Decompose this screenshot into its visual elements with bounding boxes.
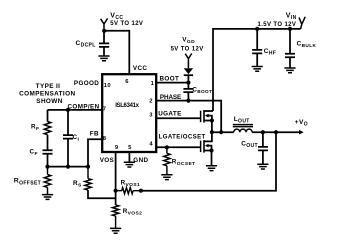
wire VOS pin 9 — [115, 152, 117, 205]
capacitor CDCPL — [76, 31, 110, 56]
svg-text:CBOOT: CBOOT — [192, 86, 212, 94]
diode DBOOT — [184, 68, 193, 75]
ground (Q2 source) — [206, 166, 217, 171]
svg-text:COUT: COUT — [241, 140, 258, 149]
svg-text:ISL6341x: ISL6341x — [115, 103, 139, 109]
wire PHASE pin 2 — [156, 101, 221, 133]
wire COMP to RF — [47, 110, 49, 122]
node CBULK junction dot — [288, 27, 292, 31]
svg-text:CF: CF — [30, 149, 38, 158]
node VCC junction dot — [102, 29, 106, 33]
svg-text:SHOWN: SHOWN — [36, 98, 62, 105]
resistor RVOS1 — [116, 179, 141, 193]
VGD input terminal arrow — [185, 54, 192, 69]
svg-text:COMPENSATION: COMPENSATION — [19, 91, 75, 98]
svg-text:VIN: VIN — [286, 12, 297, 21]
wire VOS sense line — [141, 132, 276, 191]
wire Q2 source to ground — [211, 151, 213, 166]
capacitor CI — [63, 110, 79, 167]
resistor ROFFSET — [14, 167, 51, 195]
node phase-PHASE pin junction dot — [219, 130, 223, 134]
+VO output arrow — [299, 130, 304, 135]
svg-text:8: 8 — [103, 136, 107, 142]
wire CF to FB node — [47, 155, 49, 167]
node Q2 source dot — [209, 148, 213, 152]
capacitor CBULK — [285, 29, 316, 68]
svg-text:CI: CI — [73, 134, 80, 143]
resistor RVOS2 — [112, 205, 142, 228]
node CF-FB junction dot — [45, 165, 49, 169]
node phase junction dot — [210, 130, 214, 134]
svg-text:RF: RF — [31, 124, 39, 133]
ground (RVOS2) — [110, 228, 121, 233]
svg-text:9: 9 — [115, 145, 119, 151]
transistor Q1 upper MOSFET — [201, 110, 213, 123]
wire UGATE pin 3 — [156, 117, 200, 119]
svg-text:5V TO 12V: 5V TO 12V — [171, 47, 204, 53]
svg-text:ROCSET: ROCSET — [172, 158, 196, 167]
capacitor CHF — [252, 29, 276, 67]
svg-text:+VO: +VO — [295, 119, 308, 128]
wire Q1 source to phase node — [211, 121, 213, 133]
ground (ROCSET) — [161, 175, 172, 180]
node VOS junction dot — [114, 189, 118, 193]
wire GND pin 5 — [128, 152, 130, 162]
svg-text:TYPE II: TYPE II — [36, 83, 61, 90]
wire diode to phase — [187, 75, 189, 100]
svg-text:4: 4 — [149, 142, 153, 148]
svg-text:1: 1 — [151, 81, 155, 87]
ground (CDCPL) — [98, 56, 109, 61]
svg-text:LOUT: LOUT — [234, 116, 250, 125]
capacitor CBOOT — [183, 86, 212, 94]
wire VCC rail to pin 6 — [104, 31, 129, 74]
resistor RF — [31, 122, 51, 135]
transistor Q2 lower MOSFET — [201, 132, 212, 152]
wire output rail — [252, 131, 299, 133]
svg-text:3: 3 — [149, 113, 153, 119]
node FB-RS junction dot — [86, 165, 90, 169]
svg-text:GND: GND — [133, 157, 148, 164]
svg-text:BOOT: BOOT — [160, 75, 180, 82]
svg-text:VCC: VCC — [133, 65, 148, 72]
ground (CHF) — [252, 67, 263, 72]
ground (GND pin) — [124, 162, 135, 167]
wire RS to RVOS2 node — [88, 190, 116, 198]
svg-text:CBULK: CBULK — [297, 41, 317, 49]
wire RF to CF — [47, 135, 49, 150]
node BOOT junction dot — [186, 81, 190, 85]
svg-text:5V TO 12V: 5V TO 12V — [110, 21, 143, 27]
svg-text:CDCPL: CDCPL — [76, 40, 96, 49]
node Q1 source dot — [210, 118, 214, 122]
svg-text:PHASE: PHASE — [160, 94, 181, 101]
note TYPE II COMPENSATION SHOWN — [19, 83, 75, 105]
svg-text:VOS: VOS — [100, 157, 114, 164]
ground (COUT) — [257, 164, 268, 169]
ground (ROFFSET) — [42, 195, 53, 200]
node RVOS1 right junction dot — [139, 189, 143, 193]
wire VIN rail — [213, 29, 301, 111]
svg-text:RS: RS — [73, 180, 82, 189]
svg-text:RVOS1: RVOS1 — [121, 179, 141, 188]
node CI-FB junction dot — [66, 165, 70, 169]
node VOS sense junction dot — [274, 130, 278, 134]
svg-text:2: 2 — [149, 99, 153, 105]
svg-text:PGOOD: PGOOD — [74, 80, 99, 87]
node PHASE-CBOOT junction dot — [186, 99, 190, 103]
svg-text:6: 6 — [125, 79, 129, 85]
svg-text:UGATE: UGATE — [158, 111, 181, 118]
wire LGATE pin 4 — [156, 146, 200, 148]
node COUT junction dot — [261, 130, 265, 134]
wire FB node horizontal — [48, 166, 89, 168]
resistor RS — [73, 167, 91, 191]
wire COMP/EN pin 7 — [48, 109, 103, 111]
svg-text:10: 10 — [104, 83, 111, 89]
node COMP-CI junction dot — [66, 108, 70, 112]
svg-text:ROFFSET: ROFFSET — [14, 178, 41, 187]
VCC input terminal arrow — [101, 18, 108, 30]
wire phase node — [212, 131, 234, 133]
svg-text:CHF: CHF — [264, 48, 277, 57]
svg-text:LGATE/OCSET: LGATE/OCSET — [159, 134, 206, 141]
node CHF junction dot — [255, 27, 259, 31]
capacitor COUT — [241, 132, 268, 164]
svg-text:5: 5 — [128, 145, 132, 151]
ground (CBULK) — [284, 68, 295, 73]
resistor ROCSET — [164, 147, 196, 174]
node ROCSET junction dot — [165, 145, 169, 149]
IC U1 ISL6341x — [102, 74, 156, 152]
wire BOOT pin 1 — [156, 82, 188, 84]
svg-text:7: 7 — [103, 106, 107, 112]
inductor LOUT — [233, 116, 253, 132]
svg-text:FB: FB — [90, 131, 99, 138]
wire FB pin 8 — [88, 139, 102, 166]
svg-text:RVOS2: RVOS2 — [123, 208, 143, 217]
VIN input terminal arrow — [299, 17, 305, 29]
svg-text:VGD: VGD — [182, 36, 195, 45]
capacitor CF — [30, 149, 53, 158]
